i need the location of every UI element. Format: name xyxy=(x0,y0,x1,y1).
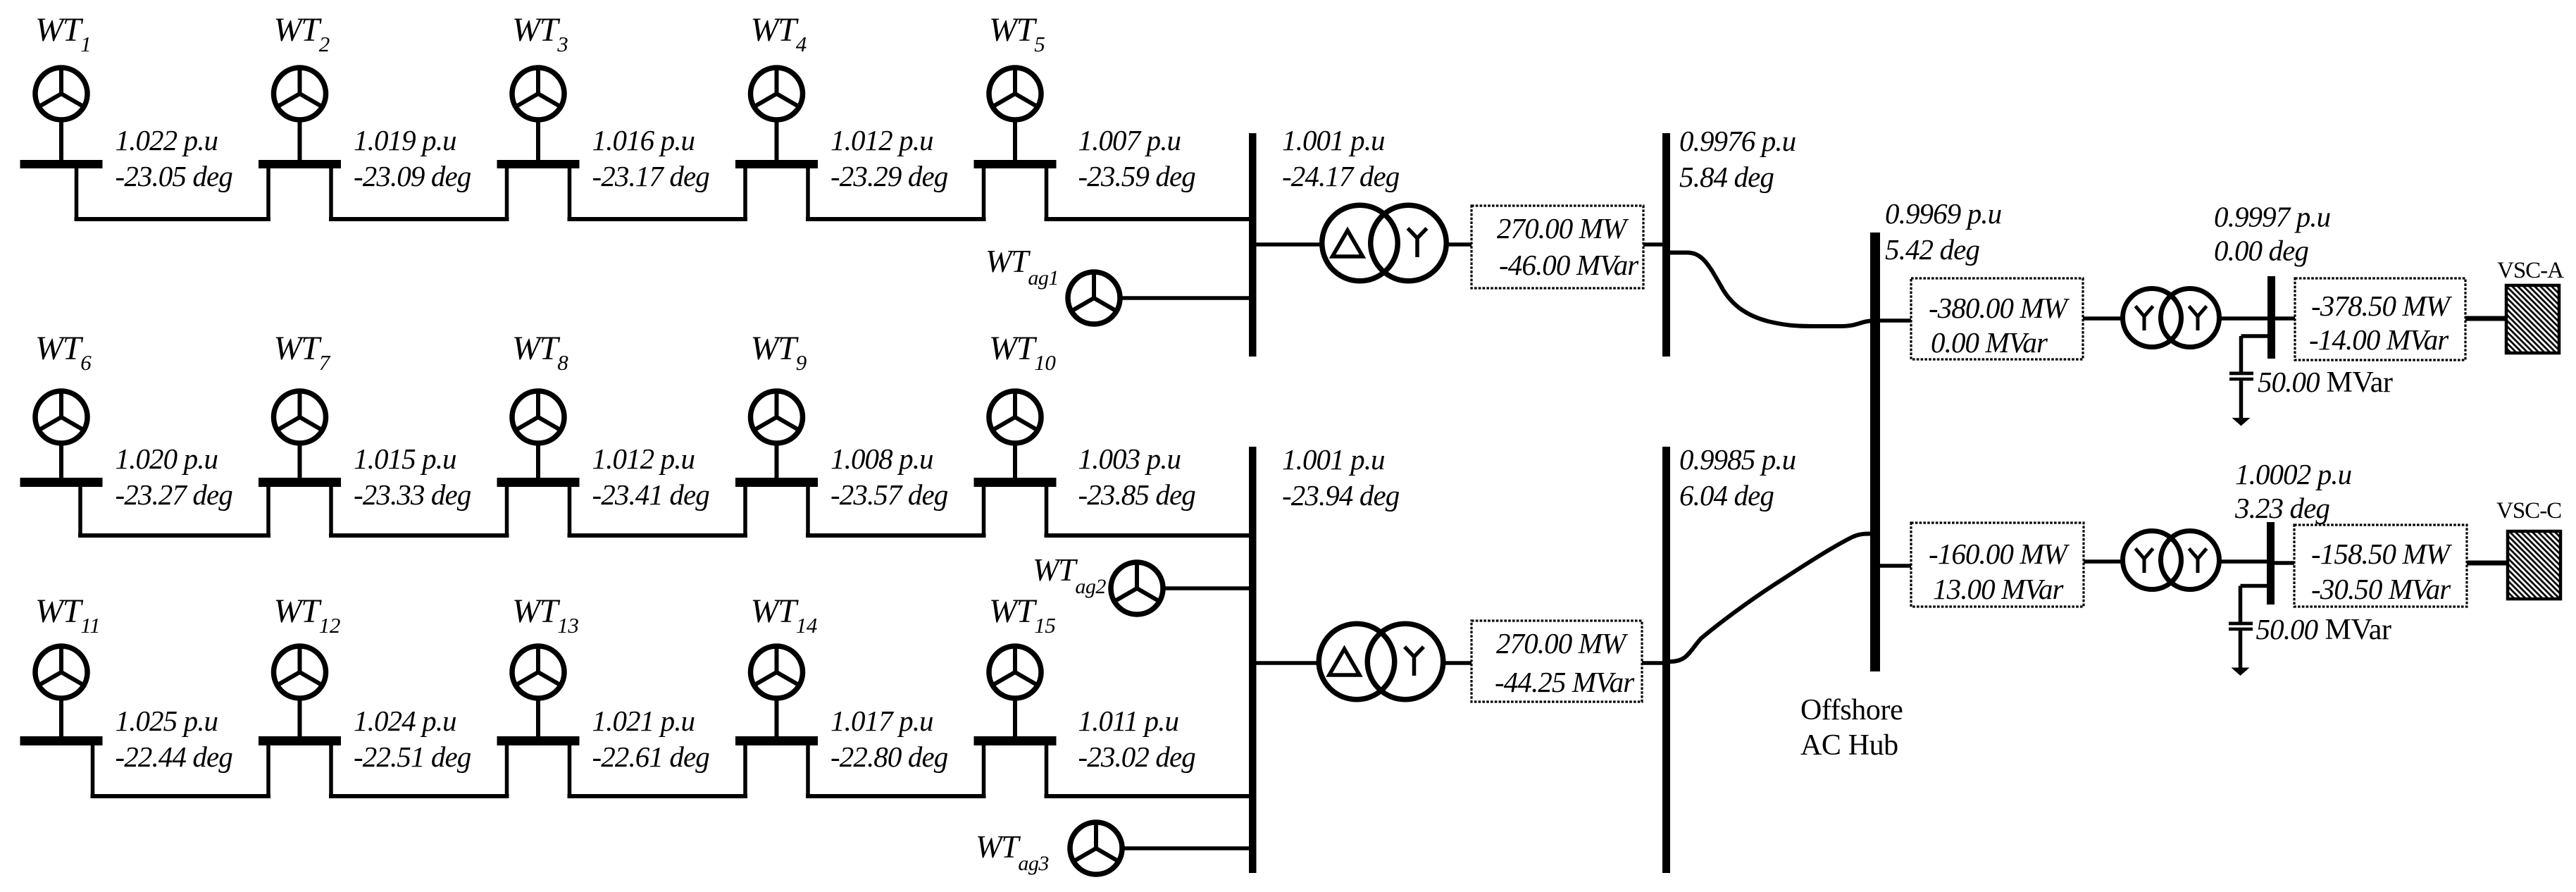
wire power flow box to VSC-A xyxy=(2465,316,2505,321)
wind turbine WTag1 symbol xyxy=(1068,272,1120,324)
wire drop from WT9 bus (right) xyxy=(806,487,810,538)
transformer T1 delta-wye xyxy=(1322,205,1447,281)
wire collector bus 2 to transformer T2 xyxy=(1257,661,1319,665)
feeder wire segment xyxy=(806,794,986,798)
bus bar B1 (1.022 p.u) xyxy=(20,160,103,168)
wire power flow box to VSC-C xyxy=(2467,561,2506,566)
capacitor C2 plates xyxy=(2229,622,2253,626)
wind turbine WT1 symbol xyxy=(35,68,87,120)
wind turbine WT2 symbol xyxy=(274,68,326,120)
feeder wire segment xyxy=(568,794,748,798)
wire AC hub to power flow box -380 xyxy=(1880,318,1911,323)
wire drop from WT5 bus (right) xyxy=(1045,168,1049,221)
wire transformer T2 to power flow box xyxy=(1443,661,1472,665)
feeder wire to collector bus xyxy=(1045,794,1252,798)
svg-text:1.001 p.u: 1.001 p.u xyxy=(1282,443,1385,476)
svg-text:5.84 deg: 5.84 deg xyxy=(1679,161,1774,193)
svg-text:1.015 p.u: 1.015 p.u xyxy=(354,442,456,475)
wire drop from WT12 bus (right) xyxy=(329,745,333,798)
wire bus 5 to power flow box xyxy=(2275,316,2295,321)
svg-text:-23.94 deg: -23.94 deg xyxy=(1282,479,1400,512)
wind turbine WT15 symbol xyxy=(989,646,1041,698)
svg-text:6.04 deg: 6.04 deg xyxy=(1679,479,1774,512)
svg-text:-22.44 deg: -22.44 deg xyxy=(116,741,233,773)
svg-text:-23.41 deg: -23.41 deg xyxy=(592,478,710,511)
feeder wire segment xyxy=(568,533,748,538)
wire WTag3 to collector bus 2 xyxy=(1122,846,1251,850)
svg-text:270.00 MW: 270.00 MW xyxy=(1497,212,1629,244)
capacitor C1 plates xyxy=(2229,372,2253,376)
svg-text:-23.02 deg: -23.02 deg xyxy=(1078,741,1196,773)
bus bar B6 (1.020 p.u) xyxy=(20,478,103,487)
stem wire WT14 to bus xyxy=(775,698,779,736)
stem wire WT4 to bus xyxy=(775,119,779,160)
bus 5 (0.9997 p.u 0.00 deg) xyxy=(2267,276,2275,359)
wind turbine WT7 symbol xyxy=(274,391,326,443)
wire transformer T3 to bus 5 xyxy=(2220,316,2268,321)
stem wire WT2 to bus xyxy=(298,119,302,160)
feeder wire segment xyxy=(75,217,271,221)
bus bar B14 (1.017 p.u) xyxy=(735,736,818,745)
stem wire WT8 to bus xyxy=(536,442,540,478)
wind turbine WT13 symbol xyxy=(512,646,564,698)
wind turbine WT6 symbol xyxy=(35,391,87,443)
shunt capacitor branch at bus 5 xyxy=(2241,334,2268,338)
bus bar B13 (1.021 p.u) xyxy=(497,736,580,745)
svg-text:-14.00 MVar: -14.00 MVar xyxy=(2309,323,2449,356)
stem wire WT9 to bus xyxy=(775,442,779,478)
wire power flow box to transformer T4 xyxy=(2084,559,2123,564)
svg-text:1.011 p.u: 1.011 p.u xyxy=(1078,705,1179,737)
svg-text:1.003 p.u: 1.003 p.u xyxy=(1078,442,1181,475)
wind turbine WT10 symbol xyxy=(989,391,1041,443)
svg-text:1.007 p.u: 1.007 p.u xyxy=(1078,124,1181,156)
bus bar B3 (1.016 p.u) xyxy=(497,160,580,168)
cable bus 4 to AC hub (S-curve) xyxy=(1670,534,1871,662)
wire drop from WT14 bus (right) xyxy=(806,745,810,798)
wire drop into WT13 bus (left) xyxy=(505,745,509,798)
wire drop into WT10 bus (left) xyxy=(982,487,986,538)
wire drop from WT1 bus xyxy=(75,168,79,221)
collector bus 1 (1.001 p.u -24.17 deg) xyxy=(1249,133,1257,357)
svg-text:-23.59 deg: -23.59 deg xyxy=(1078,160,1196,192)
feeder wire segment xyxy=(329,217,509,221)
bus bar B11 (1.025 p.u) xyxy=(20,736,103,745)
wire drop from WT4 bus (right) xyxy=(806,168,810,221)
wire drop into WT7 bus (left) xyxy=(266,487,270,538)
wire drop into WT12 bus (left) xyxy=(266,745,270,798)
feeder wire to collector bus xyxy=(1045,533,1252,538)
power flow box -158.50 MW -30.50 MVar xyxy=(2294,525,2467,607)
svg-text:-23.57 deg: -23.57 deg xyxy=(830,478,948,511)
svg-text:270.00 MW: 270.00 MW xyxy=(1496,627,1629,659)
transformer T2 delta-wye xyxy=(1319,624,1443,700)
svg-text:3.23 deg: 3.23 deg xyxy=(2234,492,2329,524)
svg-text:13.00 MVar: 13.00 MVar xyxy=(1933,573,2065,605)
svg-text:-158.50 MW: -158.50 MW xyxy=(2311,538,2453,570)
wind turbine WT11 symbol xyxy=(35,646,87,698)
wire drop from WT6 bus xyxy=(78,487,82,538)
wire drop into WT15 bus (left) xyxy=(982,745,986,798)
svg-text:1.012 p.u: 1.012 p.u xyxy=(592,442,695,475)
wire drop into WT2 bus (left) xyxy=(266,168,270,221)
collector bus 2 (1.001 p.u -23.94 deg) xyxy=(1249,447,1257,873)
offshore AC hub bus xyxy=(1870,233,1880,671)
svg-text:-44.25 MVar: -44.25 MVar xyxy=(1495,666,1635,698)
svg-text:-23.27 deg: -23.27 deg xyxy=(116,478,233,511)
stem wire WT7 to bus xyxy=(298,442,302,478)
wire WTag1 to collector bus 1 xyxy=(1120,296,1251,300)
svg-text:1.016 p.u: 1.016 p.u xyxy=(592,124,695,156)
bus bar B5 (1.007 p.u) xyxy=(974,160,1057,168)
wire power flow box to transformer T3 xyxy=(2083,316,2123,321)
feeder wire segment xyxy=(78,533,270,538)
stem wire WT1 to bus xyxy=(59,119,63,160)
svg-text:AC Hub: AC Hub xyxy=(1800,729,1898,762)
feeder wire segment xyxy=(568,217,748,221)
wire drop from WT7 bus (right) xyxy=(329,487,333,538)
power flow box -380.00 MW 0.00 MVar xyxy=(1911,278,2083,359)
svg-text:1.008 p.u: 1.008 p.u xyxy=(830,442,933,475)
cable bus 3 to AC hub (S-curve) xyxy=(1670,253,1872,327)
stem wire WT6 to bus xyxy=(59,442,63,478)
svg-text:0.9985 p.u: 0.9985 p.u xyxy=(1679,443,1796,476)
svg-text:-22.80 deg: -22.80 deg xyxy=(830,741,948,773)
svg-text:VSC-A: VSC-A xyxy=(2497,258,2564,283)
wind turbine WTag3 symbol xyxy=(1070,822,1122,874)
stem wire WT11 to bus xyxy=(59,698,63,736)
svg-text:-23.29 deg: -23.29 deg xyxy=(830,160,948,192)
VSC-C converter (hatched box) xyxy=(2508,531,2561,599)
wire drop into WT3 bus (left) xyxy=(505,168,509,221)
svg-text:-378.50 MW: -378.50 MW xyxy=(2311,290,2453,322)
wind turbine WT3 symbol xyxy=(512,68,564,120)
wire drop from WT2 bus (right) xyxy=(329,168,333,221)
wire drop from WT13 bus (right) xyxy=(568,745,572,798)
wire drop from WT15 bus (right) xyxy=(1045,745,1049,798)
svg-text:-22.61 deg: -22.61 deg xyxy=(592,741,710,773)
svg-text:-23.17 deg: -23.17 deg xyxy=(592,160,710,192)
wire drop from WT11 bus xyxy=(91,745,95,798)
svg-text:50.00: 50.00 xyxy=(2256,613,2318,645)
feeder wire segment xyxy=(806,533,986,538)
svg-text:-23.09 deg: -23.09 deg xyxy=(354,160,471,192)
wire transformer T1 to power flow box xyxy=(1446,242,1471,247)
VSC-A converter (hatched box) xyxy=(2506,285,2559,353)
svg-text:1.022 p.u: 1.022 p.u xyxy=(116,124,218,156)
svg-text:-23.85 deg: -23.85 deg xyxy=(1078,478,1196,511)
feeder wire segment xyxy=(329,533,509,538)
bus bar B7 (1.015 p.u) xyxy=(259,478,341,487)
wire drop into WT14 bus (left) xyxy=(743,745,747,798)
svg-text:Offshore: Offshore xyxy=(1800,694,1903,726)
wire bus 6 to power flow box xyxy=(2275,561,2294,565)
svg-text:-22.51 deg: -22.51 deg xyxy=(354,741,471,773)
svg-text:0.9997 p.u: 0.9997 p.u xyxy=(2214,201,2331,233)
power flow box 270.00 MW -46.00 MVar xyxy=(1471,206,1643,288)
svg-text:-30.50 MVar: -30.50 MVar xyxy=(2311,573,2451,605)
wire drop from WT8 bus (right) xyxy=(568,487,572,538)
wire drop into WT4 bus (left) xyxy=(743,168,747,221)
wire drop into WT9 bus (left) xyxy=(743,487,747,538)
stem wire WT12 to bus xyxy=(298,698,302,736)
wind turbine WT14 symbol xyxy=(751,646,803,698)
wire power flow box to bus 3 xyxy=(1643,242,1662,247)
svg-text:-23.33 deg: -23.33 deg xyxy=(354,478,471,511)
bus 3 (0.9976 p.u 5.84 deg) xyxy=(1662,133,1670,357)
stem wire WT13 to bus xyxy=(536,698,540,736)
feeder wire segment xyxy=(329,794,509,798)
svg-text:1.012 p.u: 1.012 p.u xyxy=(830,124,933,156)
bus bar B12 (1.024 p.u) xyxy=(259,736,341,745)
feeder wire to collector bus xyxy=(1045,217,1252,221)
svg-text:0.9976 p.u: 0.9976 p.u xyxy=(1679,125,1796,157)
wire WTag2 to collector bus 2 xyxy=(1163,586,1251,590)
svg-text:-24.17 deg: -24.17 deg xyxy=(1282,160,1400,192)
wire drop from WT10 bus (right) xyxy=(1045,487,1049,538)
svg-text:1.0002 p.u: 1.0002 p.u xyxy=(2235,458,2352,490)
svg-text:1.019 p.u: 1.019 p.u xyxy=(354,124,456,156)
svg-text:MVar: MVar xyxy=(2325,614,2391,646)
svg-text:0.9969 p.u: 0.9969 p.u xyxy=(1885,197,2002,230)
shunt capacitor branch at bus 6 xyxy=(2241,584,2267,588)
wire transformer T4 to bus 6 xyxy=(2220,559,2267,564)
svg-text:-46.00 MVar: -46.00 MVar xyxy=(1499,249,1639,281)
svg-text:-160.00 MW: -160.00 MW xyxy=(1929,538,2070,570)
svg-text:-23.05 deg: -23.05 deg xyxy=(116,160,233,192)
bus bar B4 (1.012 p.u) xyxy=(735,160,818,168)
svg-text:1.025 p.u: 1.025 p.u xyxy=(116,705,218,737)
svg-text:0.00 MVar: 0.00 MVar xyxy=(1931,326,2048,359)
wire drop into WT8 bus (left) xyxy=(505,487,509,538)
wind turbine WT12 symbol xyxy=(274,646,326,698)
bus bar B10 (1.003 p.u) xyxy=(974,478,1057,487)
power flow box -378.50 MW -14.00 MVar xyxy=(2295,278,2465,360)
wind turbine WT4 symbol xyxy=(751,68,803,120)
stem wire WT3 to bus xyxy=(536,119,540,160)
svg-text:-380.00 MW: -380.00 MW xyxy=(1929,292,2070,324)
wire drop into WT5 bus (left) xyxy=(982,168,986,221)
transformer T4 wye-wye xyxy=(2123,531,2220,590)
transformer T3 wye-wye xyxy=(2123,289,2220,347)
bus bar B2 (1.019 p.u) xyxy=(259,160,341,168)
stem wire WT10 to bus xyxy=(1013,442,1017,478)
svg-text:1.024 p.u: 1.024 p.u xyxy=(354,705,456,737)
wind turbine WT9 symbol xyxy=(751,391,803,443)
bus bar B15 (1.011 p.u) xyxy=(974,736,1057,745)
wire drop from WT3 bus (right) xyxy=(568,168,572,221)
wire collector bus 1 to transformer T1 xyxy=(1257,242,1323,247)
bus 6 (1.0002 p.u 3.23 deg) xyxy=(2267,522,2275,605)
svg-text:1.021 p.u: 1.021 p.u xyxy=(592,705,695,737)
power flow box -160.00 MW 13.00 MVar xyxy=(1911,523,2084,607)
bus 4 (0.9985 p.u 6.04 deg) xyxy=(1662,447,1670,873)
stem wire WT5 to bus xyxy=(1013,119,1017,160)
bus bar B8 (1.012 p.u) xyxy=(497,478,580,487)
wire AC hub to power flow box -160 xyxy=(1880,564,1911,568)
svg-text:1.020 p.u: 1.020 p.u xyxy=(116,442,218,475)
feeder wire segment xyxy=(806,217,986,221)
wire power flow box to bus 4 xyxy=(1642,661,1662,665)
svg-text:0.00 deg: 0.00 deg xyxy=(2214,235,2308,267)
capacitor C1 ground lead and arrow xyxy=(2239,380,2244,419)
stem wire WT15 to bus xyxy=(1013,698,1017,736)
power flow box 270.00 MW -44.25 MVar xyxy=(1471,621,1642,702)
svg-text:1.001 p.u: 1.001 p.u xyxy=(1282,124,1385,156)
feeder wire segment xyxy=(91,794,271,798)
wind turbine WTag2 symbol xyxy=(1111,562,1163,614)
svg-text:1.017 p.u: 1.017 p.u xyxy=(830,705,933,737)
bus bar B9 (1.008 p.u) xyxy=(735,478,818,487)
capacitor C2 ground lead and arrow xyxy=(2239,631,2243,668)
svg-text:VSC-C: VSC-C xyxy=(2496,498,2561,524)
wind turbine WT8 symbol xyxy=(512,391,564,443)
svg-text:50.00: 50.00 xyxy=(2258,366,2320,398)
svg-text:5.42 deg: 5.42 deg xyxy=(1885,233,1979,266)
svg-text:MVar: MVar xyxy=(2327,366,2393,399)
wind turbine WT5 symbol xyxy=(989,68,1041,120)
